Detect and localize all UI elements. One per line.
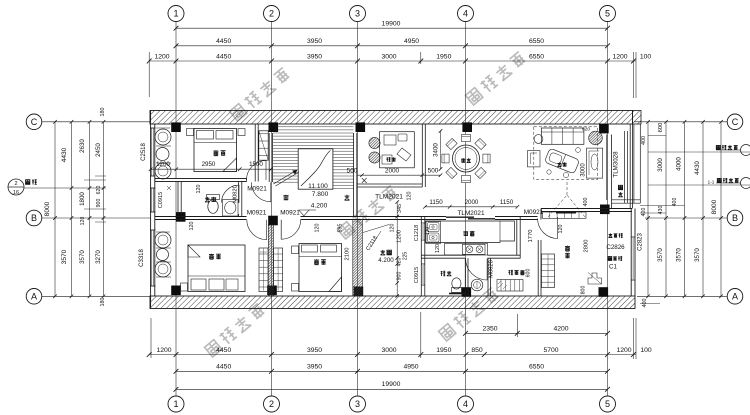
- kitchen label: [463, 231, 468, 236]
- bedroom4 label vertical: [565, 246, 570, 251]
- svg-text:7.800: 7.800: [312, 191, 329, 198]
- bedroom1 balcony chairs: [155, 129, 171, 145]
- svg-text:2000: 2000: [385, 168, 400, 175]
- svg-text:M0921: M0921: [280, 209, 300, 216]
- left exterior wall: [150, 111, 152, 309]
- living sofa armrest: [534, 135, 543, 144]
- bedroom1 dim line: [151, 168, 272, 170]
- window C2826 in bedroom4 right wall: [631, 236, 635, 238]
- stair down label: [283, 195, 288, 200]
- bedroom3 bedside tables: [292, 246, 299, 254]
- axis bubble 1 top: [168, 6, 184, 22]
- svg-text:2: 2: [269, 9, 274, 19]
- dining dim 3400: [440, 131, 442, 169]
- washroom mat: [449, 293, 465, 295]
- door M0921 stair hall: [251, 182, 270, 202]
- svg-text:4950: 4950: [404, 38, 419, 45]
- stair treads upper: [273, 126, 353, 128]
- axis bubble C left: [26, 114, 42, 130]
- svg-text:19900: 19900: [382, 21, 401, 28]
- svg-text:180: 180: [100, 298, 106, 307]
- balcony detail bubble 2/16 left: [8, 179, 24, 195]
- svg-text:5: 5: [605, 399, 610, 409]
- svg-text:225: 225: [403, 252, 409, 261]
- svg-text:16: 16: [13, 190, 19, 196]
- svg-text:5: 5: [605, 9, 610, 19]
- exterior wall band top (hatched): [150, 111, 633, 125]
- svg-text:C2518: C2518: [141, 143, 147, 161]
- kitchen right wall: [516, 220, 518, 256]
- column bottom axis1: [171, 286, 181, 296]
- svg-text:A: A: [31, 291, 37, 301]
- svg-text:1500: 1500: [249, 161, 263, 168]
- shaft leader: [363, 225, 389, 233]
- living label: [557, 162, 561, 166]
- bedroom2 balcony chairs: [155, 232, 171, 248]
- bedroom2 label: [209, 254, 214, 259]
- svg-text:B: B: [31, 213, 37, 223]
- exterior wall band bottom (hatched): [150, 296, 635, 309]
- bathroom1 left wall: [177, 182, 179, 217]
- window C3318 in left wall: [151, 230, 153, 286]
- living room right wall: [606, 135, 608, 201]
- study chairs (hatched): [369, 137, 380, 148]
- dimension row bottom 2350 4200: [466, 332, 608, 334]
- svg-text:3000: 3000: [581, 163, 587, 177]
- svg-text:1150: 1150: [429, 199, 443, 206]
- study dim line: [357, 174, 441, 176]
- balcony corner wall block top right (hatched): [633, 111, 642, 125]
- svg-text:4: 4: [463, 9, 468, 19]
- axis bubble 5 top: [600, 6, 616, 22]
- svg-text:M0820: M0820: [233, 185, 239, 203]
- bathroom1 right wall: [238, 182, 240, 204]
- bedroom3 closet: [274, 248, 283, 292]
- axis C line left: [42, 121, 150, 123]
- axis 4 vertical grid line: [465, 22, 467, 397]
- bedroom2 closet: [259, 248, 268, 292]
- column bottom axis2: [267, 286, 277, 296]
- column top axis5: [599, 124, 609, 134]
- svg-text:1200: 1200: [156, 161, 170, 168]
- bedroom1 closet: [259, 131, 268, 160]
- dining chairs: [462, 134, 471, 141]
- svg-text:1800: 1800: [79, 192, 86, 206]
- right dim chain verticals: [647, 122, 649, 296]
- bedroom4 top cabinet: [543, 212, 587, 218]
- axis bubble 2 top: [264, 6, 280, 22]
- svg-text:120: 120: [196, 185, 202, 194]
- svg-text:1200: 1200: [397, 230, 403, 243]
- bedroom2 bedside tables: [181, 283, 188, 291]
- wall living/bedroom4 (jogged): [541, 208, 632, 210]
- axis B line left: [42, 217, 150, 219]
- svg-text:A: A: [732, 291, 738, 301]
- svg-text:1200: 1200: [612, 53, 627, 60]
- bedroom4 steps: [588, 273, 602, 284]
- window C2518 in left wall: [151, 128, 153, 176]
- svg-text:6550: 6550: [529, 53, 544, 60]
- svg-text:C: C: [31, 117, 38, 127]
- svg-text:2350: 2350: [482, 326, 497, 333]
- bedroom4 window labels: [608, 233, 612, 237]
- bedroom1 label: [213, 150, 218, 156]
- column axisB axis2: [268, 216, 278, 226]
- svg-text:900: 900: [397, 272, 403, 281]
- column axisB axis5: [600, 205, 610, 215]
- dimension row top 1200 4450 3950 3000 1950 6550 1200 100: [149, 60, 636, 62]
- column bottom axis5: [599, 287, 609, 297]
- shaft dim chain: [396, 202, 398, 296]
- sliding door TLM2021 kitchen top: [446, 216, 474, 218]
- bedroom4 wardrobe: [542, 254, 555, 288]
- window C0915 in left wall (foyer): [151, 188, 153, 212]
- bedroom3/shaft wall (hatched): [353, 220, 363, 297]
- door K study: [362, 178, 367, 183]
- stair up arrow: [274, 170, 298, 184]
- living right loveseat: [586, 148, 602, 178]
- svg-text:6550: 6550: [529, 38, 544, 45]
- svg-text:6550: 6550: [529, 364, 544, 371]
- svg-text:800: 800: [581, 286, 587, 295]
- svg-text:4: 4: [463, 399, 468, 409]
- extension lines top: [148, 52, 150, 97]
- axis bubble 5 bottom: [600, 396, 616, 412]
- washroom label: [441, 271, 446, 276]
- left intermediate dim lines: [42, 187, 106, 189]
- axis bubble 4 bottom: [458, 396, 474, 412]
- svg-text:400: 400: [642, 299, 648, 308]
- dimension row top 19900: [176, 27, 608, 29]
- svg-text:11.100: 11.100: [308, 183, 328, 190]
- svg-text:100: 100: [640, 53, 652, 60]
- svg-text:3: 3: [355, 9, 360, 19]
- dimension row bottom 1200 4450 3950 3000 1950 850 5700 1200 100: [149, 354, 636, 356]
- left dim chain verticals: [54, 122, 56, 296]
- axis 2 vertical grid line: [271, 22, 273, 397]
- svg-text:345: 345: [397, 204, 403, 213]
- bedroom3 bed: [299, 244, 342, 292]
- svg-text:2: 2: [14, 181, 17, 187]
- svg-text:120: 120: [315, 224, 321, 233]
- living rug dashed: [534, 127, 598, 180]
- door M0921 bedroom1: [247, 161, 267, 181]
- watermark 5: [438, 287, 500, 342]
- bathroom1 toilet: [207, 195, 220, 200]
- extension lines bottom: [150, 318, 152, 358]
- line to 2/16 bubble: [24, 187, 43, 189]
- door M0921 bedroom4: [538, 217, 558, 239]
- study label: [386, 157, 390, 161]
- stair treads left flight: [273, 150, 298, 152]
- svg-text:4430: 4430: [61, 147, 68, 162]
- axis bubble 3 bottom: [350, 396, 366, 412]
- closet shelf: [497, 280, 523, 292]
- svg-text:C0915: C0915: [158, 192, 164, 208]
- svg-text:2100: 2100: [345, 248, 351, 261]
- svg-text:1950: 1950: [436, 347, 451, 354]
- axis B line right: [645, 217, 727, 219]
- stair break line: [301, 151, 331, 187]
- svg-text:1: 1: [173, 9, 178, 19]
- kitchen island stove: [445, 244, 488, 256]
- svg-text:3950: 3950: [307, 53, 322, 60]
- living plant (hatched): [589, 131, 603, 145]
- column axisB axis1: [176, 212, 186, 222]
- living sofa back: [541, 128, 584, 144]
- bathroom1 label: [205, 197, 210, 202]
- svg-text:3950: 3950: [307, 347, 322, 354]
- bedroom1 bottom wall: [155, 179, 247, 182]
- level leader triangle: [299, 210, 309, 216]
- svg-text:C2826: C2826: [606, 244, 625, 251]
- svg-text:C3318: C3318: [139, 249, 145, 267]
- svg-text:180: 180: [100, 108, 106, 117]
- bedroom2 bed: [188, 245, 245, 292]
- svg-text:4450: 4450: [216, 364, 231, 371]
- svg-text:5700: 5700: [543, 347, 558, 354]
- closet left wall: [487, 258, 489, 296]
- bedroom1 bed: [194, 129, 237, 172]
- svg-text:C2823: C2823: [638, 233, 644, 251]
- watermark 2: [465, 51, 527, 106]
- axis bubble B right: [727, 210, 743, 226]
- axis bubble B left: [26, 210, 42, 226]
- door M0921 bedroom2: [247, 220, 267, 240]
- svg-text:120: 120: [407, 192, 413, 201]
- svg-text:3000: 3000: [381, 347, 396, 354]
- svg-text:1950: 1950: [436, 53, 451, 60]
- svg-text:4.200: 4.200: [378, 257, 394, 264]
- svg-text:M0921: M0921: [247, 186, 267, 193]
- svg-text:3000: 3000: [381, 53, 396, 60]
- stair treads right flight: [333, 150, 353, 152]
- closet label: [508, 270, 512, 275]
- svg-text:120: 120: [390, 224, 396, 233]
- svg-text:3570: 3570: [79, 250, 86, 264]
- svg-text:850: 850: [471, 347, 483, 354]
- svg-text:TLM3028: TLM3028: [613, 151, 620, 178]
- kitchen dim row 1150 2000 1150: [425, 206, 517, 208]
- dimension row bottom 4450 3950 4950 6550: [176, 370, 608, 372]
- study bottom wall: [357, 183, 422, 185]
- svg-text:620: 620: [96, 186, 102, 195]
- svg-text:400: 400: [583, 198, 589, 207]
- balcony label right: [618, 185, 622, 196]
- svg-text:2000: 2000: [465, 199, 479, 206]
- axis 5 vertical grid line: [607, 22, 609, 397]
- svg-text:3400: 3400: [433, 143, 440, 157]
- stair up label: [344, 195, 349, 200]
- shaft label 天井: [380, 250, 385, 255]
- axis 1 vertical grid line: [175, 22, 177, 397]
- dining label: [461, 158, 465, 162]
- svg-text:120: 120: [80, 217, 86, 226]
- svg-text:3270: 3270: [95, 250, 102, 264]
- bathroom1 sink: [223, 200, 239, 217]
- svg-text:2450: 2450: [95, 143, 102, 157]
- column top axis4: [462, 122, 472, 132]
- column top axis1: [171, 122, 181, 132]
- kitchen bottom wall: [421, 254, 465, 256]
- svg-text:600: 600: [658, 123, 664, 133]
- right intermediate dim lines: [648, 135, 666, 137]
- bedroom2/3 closet wall (hatched): [268, 225, 273, 297]
- kitchen and shaft left wall: [420, 217, 422, 297]
- bedroom4 right wall: [630, 209, 632, 297]
- svg-text:100: 100: [640, 347, 652, 354]
- wall B row segment left: [155, 216, 247, 218]
- living chaise: [544, 148, 579, 174]
- column bottom axis3: [354, 287, 364, 297]
- svg-text:4450: 4450: [216, 53, 231, 60]
- kitchen counter: [426, 221, 515, 243]
- svg-text:B: B: [732, 213, 738, 223]
- svg-text:120: 120: [425, 227, 431, 236]
- svg-text:M0921: M0921: [524, 209, 544, 216]
- svg-text:2950: 2950: [202, 161, 216, 168]
- stair left wall: [268, 133, 270, 182]
- svg-text:120: 120: [558, 225, 564, 234]
- washroom toilet: [452, 288, 462, 293]
- watermark 3: [337, 185, 399, 240]
- svg-text:2630: 2630: [79, 139, 86, 153]
- living single sofa: [528, 151, 541, 167]
- svg-text:3570: 3570: [676, 248, 683, 262]
- axis bubble 2 bottom: [264, 396, 280, 412]
- svg-text:4450: 4450: [216, 347, 231, 354]
- axis bubble C right: [727, 114, 743, 130]
- sliding door TLM3028: [624, 131, 626, 203]
- svg-text:430: 430: [658, 206, 664, 215]
- dimension row top 4450 3950 4950 6550: [176, 45, 608, 47]
- stair landing: [298, 149, 333, 189]
- svg-text:M0921: M0921: [247, 209, 267, 216]
- watermark 4: [204, 303, 266, 358]
- svg-text:500: 500: [347, 168, 358, 175]
- living dashed section lines: [548, 195, 567, 217]
- window C0915 in washroom left wall: [421, 263, 425, 265]
- svg-text:C1: C1: [609, 264, 617, 271]
- wall B row segment right of kitchen door: [495, 216, 538, 218]
- axis C line right: [634, 121, 727, 123]
- door M0921 bedroom3: [281, 220, 301, 240]
- svg-text:4000: 4000: [676, 157, 683, 171]
- svg-text:400: 400: [641, 208, 647, 217]
- column bottom axis4: [462, 287, 472, 297]
- bedroom1 bedside tables: [187, 129, 194, 136]
- svg-text:2800: 2800: [584, 240, 590, 253]
- study/dining divider wall: [421, 124, 423, 187]
- svg-text:8000: 8000: [711, 199, 718, 214]
- svg-text:3950: 3950: [307, 364, 322, 371]
- svg-text:400: 400: [641, 136, 647, 145]
- svg-text:1-1: 1-1: [708, 180, 715, 185]
- axis 3 vertical grid line: [357, 22, 359, 397]
- svg-text:4.200: 4.200: [311, 203, 328, 210]
- bedroom4 tv: [556, 212, 576, 214]
- svg-text:M0820: M0820: [489, 260, 495, 278]
- column top axis2: [269, 122, 279, 132]
- svg-text:1200: 1200: [156, 347, 171, 354]
- svg-text:4200: 4200: [553, 326, 568, 333]
- watermark 1: [229, 67, 291, 122]
- dimension row bottom 19900: [176, 388, 608, 390]
- svg-text:1150: 1150: [500, 199, 514, 206]
- right balcony labels: [716, 145, 720, 149]
- kitchen sink block: [426, 222, 441, 244]
- right balcony ref bubbles: [741, 145, 750, 156]
- svg-text:595: 595: [338, 224, 344, 233]
- svg-text:620: 620: [582, 127, 590, 133]
- svg-text:120: 120: [189, 222, 195, 231]
- svg-text:1200: 1200: [154, 53, 169, 60]
- svg-text:4950: 4950: [403, 364, 418, 371]
- axis bubble 4 top: [458, 6, 474, 22]
- axis bubble 1 bottom: [168, 396, 184, 412]
- closet/bedroom4 wall: [537, 240, 539, 296]
- washroom inner wall: [464, 258, 466, 296]
- dining table: [453, 145, 480, 172]
- svg-text:3: 3: [355, 399, 360, 409]
- svg-text:900: 900: [96, 199, 102, 208]
- svg-text:1770: 1770: [528, 230, 534, 243]
- axis A line right: [637, 295, 727, 297]
- svg-text:2: 2: [269, 399, 274, 409]
- study desk: [380, 132, 415, 168]
- axis bubble A right: [727, 289, 743, 305]
- svg-text:C1218: C1218: [414, 225, 420, 241]
- svg-text:120: 120: [435, 244, 441, 253]
- svg-text:3570: 3570: [657, 248, 664, 262]
- svg-text:8000: 8000: [44, 201, 51, 216]
- svg-text:3950: 3950: [307, 38, 322, 45]
- column top axis3: [356, 122, 366, 132]
- door M0820 kitchen to lobby: [466, 259, 488, 281]
- svg-text:C: C: [732, 117, 739, 127]
- svg-text:4430: 4430: [694, 161, 701, 175]
- svg-text:500: 500: [428, 168, 439, 175]
- lobby basin: [471, 279, 483, 291]
- window C1218 in kitchen left wall: [421, 222, 425, 224]
- stair right wall: [353, 133, 355, 217]
- svg-text:400: 400: [672, 198, 678, 207]
- svg-text:3570: 3570: [694, 248, 701, 262]
- svg-text:4450: 4450: [216, 38, 231, 45]
- svg-text:3570: 3570: [61, 249, 68, 264]
- svg-text:C0915: C0915: [414, 267, 420, 283]
- balcony label left: [26, 180, 30, 185]
- axis bubble A left: [26, 289, 42, 305]
- svg-text:19900: 19900: [382, 381, 401, 388]
- bedroom3 label: [314, 259, 319, 264]
- svg-text:TLM2021: TLM2021: [375, 193, 403, 200]
- svg-text:1200: 1200: [616, 347, 631, 354]
- balcony right rails: [633, 124, 635, 203]
- axis bubble 3 top: [350, 6, 366, 22]
- svg-text:600: 600: [526, 269, 532, 278]
- door M0820 bathroom1: [222, 185, 240, 203]
- svg-text:1: 1: [173, 399, 178, 409]
- axis A line left: [42, 295, 150, 297]
- door M0921 bedroom3 leaf: [280, 220, 282, 240]
- wall B row segment mid: [301, 216, 447, 218]
- svg-text:TLM2021: TLM2021: [458, 210, 485, 217]
- svg-text:3000: 3000: [657, 158, 664, 172]
- bedroom1 right wall: [254, 124, 256, 182]
